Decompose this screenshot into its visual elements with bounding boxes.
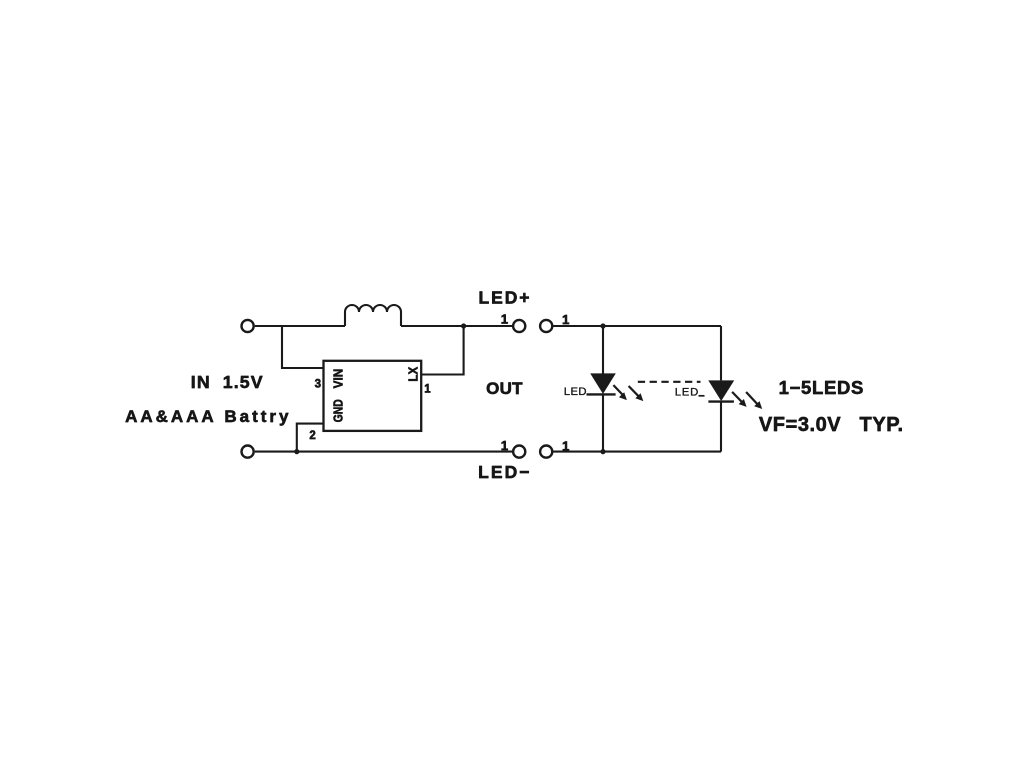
svg-text:2: 2 <box>309 430 315 442</box>
svg-text:OUT: OUT <box>486 379 523 398</box>
svg-text:3: 3 <box>315 378 321 390</box>
svg-text:1: 1 <box>501 312 509 327</box>
svg-text:LED−: LED− <box>478 462 529 482</box>
svg-text:1: 1 <box>501 438 509 453</box>
svg-text:AA&AAA Battry: AA&AAA Battry <box>125 407 289 426</box>
svg-text:1: 1 <box>562 438 570 453</box>
svg-text:LED: LED <box>675 387 699 399</box>
svg-text:IN 1.5V: IN 1.5V <box>191 372 263 392</box>
svg-text:LED+: LED+ <box>479 288 530 308</box>
svg-text:GND: GND <box>331 399 346 422</box>
svg-text:1−5LEDS: 1−5LEDS <box>779 377 864 398</box>
svg-text:LX: LX <box>406 366 420 381</box>
svg-text:LED: LED <box>564 386 587 398</box>
svg-text:1: 1 <box>424 383 431 395</box>
svg-text:VIN: VIN <box>331 369 346 389</box>
svg-text:1: 1 <box>562 312 570 327</box>
svg-text:VF=3.0V TYP.: VF=3.0V TYP. <box>759 414 903 436</box>
